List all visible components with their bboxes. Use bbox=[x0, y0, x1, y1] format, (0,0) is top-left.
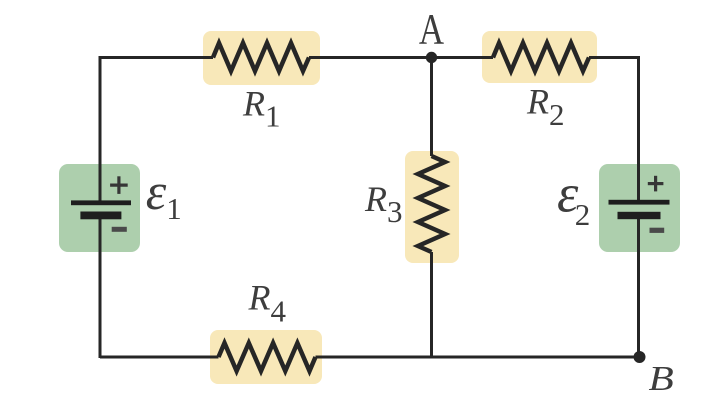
wire right vertical upper bbox=[637, 56, 640, 202]
node B junction dot bbox=[634, 351, 646, 363]
battery E2 minus sign bbox=[650, 228, 665, 233]
wire bottom-left horizontal bbox=[100, 356, 219, 359]
wire top-right horizontal bbox=[589, 56, 639, 59]
wire middle vertical lower bbox=[430, 252, 433, 359]
battery E1 short plate (-) bbox=[80, 212, 121, 220]
resistor R4 zigzag bbox=[219, 343, 316, 371]
wire middle vertical upper bbox=[430, 58, 433, 157]
battery E2 plus sign bbox=[648, 176, 664, 192]
resistor R1 highlight box bbox=[203, 31, 320, 85]
battery E2 short plate (-) bbox=[618, 212, 661, 219]
resistor R1 zigzag bbox=[213, 43, 309, 71]
battery E1 plus sign bbox=[110, 176, 128, 194]
resistor R3 zigzag bbox=[418, 156, 445, 252]
wire top-left horizontal bbox=[100, 56, 213, 59]
resistor R3 highlight box bbox=[405, 151, 459, 263]
wire left vertical lower bbox=[99, 215, 102, 358]
svg-text:B: B bbox=[649, 360, 674, 398]
wire left vertical upper bbox=[99, 56, 102, 203]
wire bottom-right horizontal bbox=[316, 356, 640, 359]
resistor R2 highlight box bbox=[482, 31, 597, 83]
wire top-middle horizontal bbox=[309, 56, 493, 59]
svg-text:A: A bbox=[419, 6, 444, 53]
battery E1 highlight box bbox=[59, 164, 140, 252]
node A junction dot bbox=[426, 52, 437, 63]
battery E1 minus sign bbox=[112, 227, 127, 232]
battery E1 long plate (+) bbox=[71, 200, 131, 205]
resistor R4 highlight box bbox=[210, 330, 322, 384]
wire right vertical lower bbox=[637, 214, 640, 357]
resistor R2 zigzag bbox=[493, 43, 589, 71]
battery E2 highlight box bbox=[599, 164, 680, 252]
battery E2 long plate (+) bbox=[609, 200, 670, 205]
